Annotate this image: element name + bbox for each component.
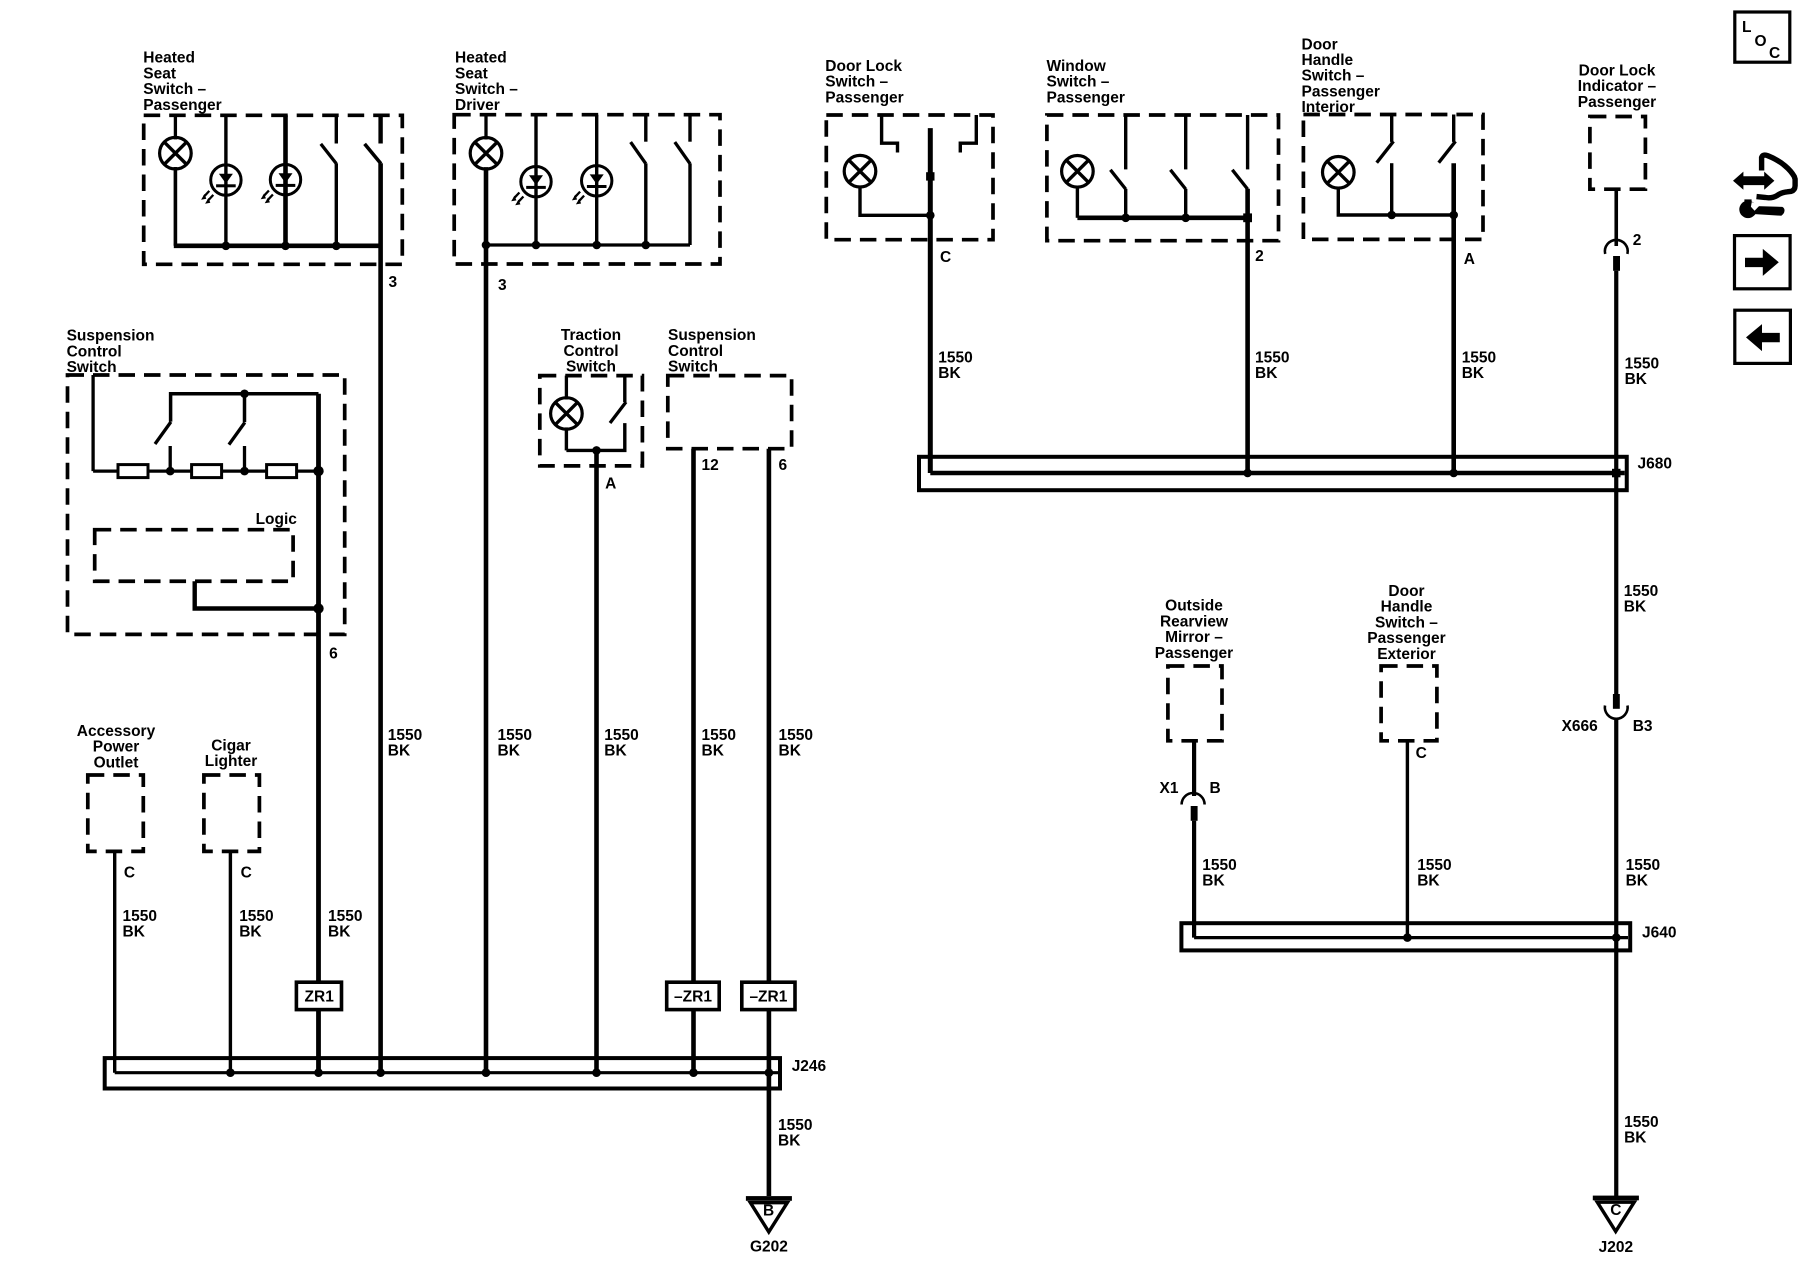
- wire connector down to J640: [1192, 821, 1196, 938]
- door handle switch S2 top contact: [1452, 115, 1455, 142]
- wire LED2 branch: [595, 115, 598, 245]
- switch S4 top contact: [688, 115, 691, 142]
- switch SA blade: [155, 422, 171, 444]
- connector terminal 2 arc: [1605, 240, 1628, 254]
- junction dots on J640: [1403, 933, 1412, 942]
- wire lamp feed: [174, 115, 177, 139]
- cigar lighter box: [204, 775, 260, 851]
- traction switch top contact: [623, 376, 626, 402]
- switch SB blade: [229, 423, 245, 445]
- junction dot on top rail: [240, 389, 249, 398]
- svg-text:B: B: [763, 1203, 774, 1220]
- svg-text:1550BK: 1550BK: [1417, 857, 1451, 890]
- suspension control switch 2 box: [668, 376, 792, 449]
- svg-text:X666: X666: [1562, 718, 1599, 735]
- switch S2 blade: [365, 144, 381, 164]
- wire internal common: [486, 243, 690, 246]
- vehicle navigation icon outline: [1757, 155, 1796, 198]
- svg-text:1550BK: 1550BK: [778, 1117, 812, 1150]
- resistor R1: [118, 465, 148, 478]
- traction switch blade: [610, 402, 626, 423]
- wire resistor rail: [93, 469, 318, 472]
- junction dot: [592, 446, 601, 455]
- svg-text:B3: B3: [1633, 718, 1653, 735]
- svg-text:6: 6: [779, 457, 788, 474]
- wire J640 to J202 ground: [1614, 938, 1618, 1196]
- svg-text:B: B: [1210, 780, 1221, 797]
- svg-text:2: 2: [1255, 248, 1264, 265]
- svg-text:AccessoryPowerOutlet: AccessoryPowerOutlet: [77, 723, 156, 771]
- legend arrow right box: [1735, 236, 1791, 289]
- wire down to J640: [1614, 719, 1618, 938]
- svg-text:–ZR1: –ZR1: [749, 988, 787, 1005]
- svg-text:C: C: [124, 865, 135, 882]
- svg-text:SuspensionControlSwitch: SuspensionControlSwitch: [67, 328, 155, 376]
- svg-text:Logic: Logic: [256, 511, 298, 528]
- svg-text:OutsideRearviewMirror –Passeng: OutsideRearviewMirror –Passenger: [1155, 598, 1233, 662]
- LOC legend box: [1735, 12, 1790, 62]
- window switch S3 blade: [1232, 170, 1247, 189]
- bus J680 internal rail (bold): [930, 471, 1624, 475]
- wire pin 6 output down through J246 to G202 (bold): [767, 449, 772, 1196]
- LED D4: [572, 166, 612, 205]
- switch S3 blade: [631, 142, 646, 164]
- svg-text:3: 3: [498, 277, 507, 294]
- window switch S3 top contact: [1246, 115, 1249, 169]
- wire left leg from box top: [91, 375, 94, 471]
- door lock indicator box: [1590, 117, 1646, 190]
- svg-text:DoorHandleSwitch –PassengerExt: DoorHandleSwitch –PassengerExterior: [1367, 583, 1445, 663]
- svg-text:G202: G202: [750, 1238, 788, 1255]
- wire lamp to common: [565, 427, 568, 450]
- svg-text:A: A: [605, 475, 616, 492]
- bus J246 internal rail: [115, 1071, 778, 1074]
- svg-text:DoorHandleSwitch –PassengerInt: DoorHandleSwitch –PassengerInterior: [1302, 36, 1380, 116]
- svg-text:CigarLighter: CigarLighter: [205, 738, 258, 771]
- door lock switch center pole / wire C output to J680 (bold): [928, 128, 933, 473]
- window switch passenger box: [1047, 115, 1279, 241]
- LED D1: [201, 165, 241, 204]
- traction control switch box: [540, 376, 643, 466]
- window switch S2 top contact: [1184, 115, 1187, 169]
- svg-text:SuspensionControlSwitch: SuspensionControlSwitch: [668, 327, 756, 375]
- wire LED2 branch (bold): [283, 115, 288, 246]
- switch SA lower contact: [169, 446, 172, 471]
- svg-text:12: 12: [702, 457, 719, 474]
- switch S1 lower contact: [335, 163, 338, 246]
- svg-text:C: C: [1610, 1202, 1621, 1219]
- svg-text:WindowSwitch –Passenger: WindowSwitch –Passenger: [1047, 58, 1125, 106]
- svg-text:1550BK: 1550BK: [1626, 857, 1660, 890]
- outside rearview mirror box: [1168, 666, 1222, 741]
- wire lamp to common: [1076, 186, 1079, 218]
- junction dots on J680: [1243, 469, 1252, 478]
- lamp door handle switch: [1323, 157, 1355, 189]
- door handle switch interior box: [1303, 115, 1483, 240]
- wire door handle exterior pin C down to J640: [1406, 741, 1409, 938]
- svg-text:HeatedSeatSwitch –Driver: HeatedSeatSwitch –Driver: [455, 50, 518, 114]
- svg-text:J640: J640: [1642, 925, 1676, 942]
- window switch S1 blade: [1110, 170, 1125, 189]
- svg-text:1550BK: 1550BK: [123, 908, 157, 941]
- door handle switch exterior box: [1381, 666, 1437, 741]
- svg-text:C: C: [241, 865, 252, 882]
- wire lamp to pole: [860, 186, 930, 216]
- wire right rail output down to J246 (bold): [316, 394, 321, 1073]
- wire indicator to connector: [1614, 189, 1618, 246]
- accessory power outlet box: [88, 775, 144, 851]
- lamp window switch: [1062, 156, 1094, 188]
- svg-text:1550BK: 1550BK: [498, 727, 532, 760]
- ground J202 bar: [1593, 1196, 1639, 1201]
- switch S4 blade: [675, 142, 690, 164]
- junction dots on J246: [226, 1068, 235, 1077]
- ground G202 triangle: [750, 1203, 787, 1232]
- wire lamp feed: [565, 376, 568, 400]
- connector X666 stub: [1613, 694, 1620, 709]
- door lock switch passenger box: [826, 115, 993, 240]
- suspension control switch box: [68, 375, 345, 634]
- svg-text:Door LockIndicator –Passenger: Door LockIndicator –Passenger: [1578, 63, 1657, 111]
- junction dot: [926, 211, 935, 220]
- svg-text:–ZR1: –ZR1: [674, 988, 712, 1005]
- svg-text:C: C: [1416, 745, 1427, 762]
- splice bus J680: [919, 457, 1627, 490]
- svg-text:J246: J246: [792, 1058, 827, 1075]
- traction switch lower contact: [566, 423, 624, 450]
- door handle switch S1 top contact: [1390, 115, 1393, 142]
- junction dots: [1121, 214, 1130, 223]
- connector X1 stub: [1191, 806, 1198, 821]
- svg-text:1550BK: 1550BK: [388, 727, 422, 760]
- svg-text:1550BK: 1550BK: [1462, 350, 1496, 383]
- switch SB lower contact: [243, 446, 246, 471]
- lamp traction control switch: [551, 398, 583, 430]
- door lock switch right contact: [960, 115, 976, 153]
- vehicle navigation icon double arrow: [1733, 172, 1774, 190]
- junction dots on resistor rail: [166, 467, 175, 476]
- wire pin 12 output down to J246 (bold): [691, 449, 696, 1073]
- door handle switch S1 lower contact: [1390, 163, 1393, 215]
- lamp heated seat driver indicator: [470, 138, 502, 170]
- wire switch S2 output down to J680 (bold): [1451, 163, 1456, 473]
- wire cigar lighter pin C down to J246: [229, 851, 232, 1072]
- wire internal common (bold): [1077, 216, 1247, 221]
- pole contact dot: [926, 172, 934, 180]
- svg-text:1550BK: 1550BK: [604, 727, 638, 760]
- svg-text:ZR1: ZR1: [305, 988, 335, 1005]
- wire indicator down through J680: [1614, 271, 1618, 695]
- splice box -ZR1 second: [742, 982, 795, 1009]
- svg-text:1550BK: 1550BK: [1624, 583, 1658, 616]
- svg-text:1550BK: 1550BK: [1624, 1114, 1658, 1147]
- svg-text:2: 2: [1633, 232, 1642, 249]
- svg-text:J202: J202: [1599, 1239, 1633, 1256]
- wire internal common (bold): [174, 244, 381, 249]
- splice box ZR1: [296, 982, 341, 1009]
- svg-text:1550BK: 1550BK: [1255, 350, 1289, 383]
- svg-text:1550BK: 1550BK: [1202, 857, 1236, 890]
- svg-text:J680: J680: [1638, 456, 1672, 473]
- switch S1 blade: [321, 144, 337, 164]
- splice bus J640: [1181, 923, 1630, 950]
- wire output down to J246 (bold): [594, 450, 599, 1072]
- LED D2: [261, 165, 301, 204]
- svg-text:1550BK: 1550BK: [779, 727, 813, 760]
- resistor R3: [267, 465, 297, 478]
- svg-text:C: C: [1769, 45, 1780, 62]
- wire top rail: [171, 394, 319, 422]
- wire APO pin C down to J246: [113, 851, 116, 1072]
- svg-text:6: 6: [329, 646, 338, 663]
- wire switch S3 output down to J680 (bold): [1245, 189, 1250, 473]
- junction dots: [1387, 211, 1396, 220]
- wire lamp output down to J246 (bold): [484, 167, 489, 1073]
- wire lamp feed: [484, 115, 487, 140]
- wire lamp to common: [1338, 187, 1453, 215]
- junction dots: [222, 242, 231, 251]
- wire LED1 branch: [224, 115, 227, 246]
- legend arrow left box: [1735, 310, 1791, 363]
- switch S1 top contact: [335, 115, 338, 143]
- svg-text:C: C: [940, 249, 951, 266]
- splice box -ZR1 first: [667, 982, 720, 1009]
- switch S2 top contact: [378, 115, 382, 143]
- svg-text:1550BK: 1550BK: [328, 908, 362, 941]
- wire mirror pin B to connector: [1192, 741, 1196, 796]
- connector terminal 2 stub: [1613, 256, 1620, 271]
- door handle switch S2 blade: [1439, 141, 1456, 162]
- connector X1 arc: [1182, 793, 1205, 804]
- svg-text:1550BK: 1550BK: [702, 727, 736, 760]
- svg-text:3: 3: [389, 274, 398, 291]
- svg-text:X1: X1: [1160, 780, 1179, 797]
- svg-text:1550BK: 1550BK: [239, 908, 273, 941]
- wrench icon: [1739, 201, 1756, 218]
- window switch S2 blade: [1170, 170, 1185, 189]
- svg-text:TractionControlSwitch: TractionControlSwitch: [561, 327, 621, 375]
- lamp heated seat passenger indicator: [160, 137, 192, 169]
- switch SB top contact: [243, 394, 247, 422]
- svg-text:1550BK: 1550BK: [938, 350, 972, 383]
- bus J640 internal rail: [1194, 936, 1628, 939]
- heated seat switch driver box: [454, 115, 720, 264]
- svg-text:Door LockSwitch –Passenger: Door LockSwitch –Passenger: [825, 58, 903, 106]
- ground J202 triangle: [1597, 1202, 1634, 1231]
- svg-text:HeatedSeatSwitch –Passenger: HeatedSeatSwitch –Passenger: [143, 50, 221, 114]
- LED D3: [511, 167, 551, 206]
- junction dots: [482, 241, 491, 250]
- junction dot: [313, 603, 323, 613]
- svg-text:A: A: [1464, 251, 1475, 268]
- door handle switch S1 blade: [1377, 141, 1394, 162]
- heated seat switch passenger box: [144, 115, 403, 264]
- switch S4 lower contact: [688, 163, 691, 245]
- switch S3 top contact: [644, 115, 647, 142]
- window switch S1 lower contact: [1124, 189, 1127, 218]
- connector X666 arc: [1605, 706, 1628, 719]
- door lock switch left contact: [882, 115, 898, 153]
- svg-text:1550BK: 1550BK: [1625, 356, 1659, 389]
- switch S3 lower contact: [644, 163, 647, 245]
- svg-text:O: O: [1755, 33, 1767, 50]
- wire LED1 branch: [534, 115, 537, 245]
- splice bus J246: [105, 1058, 780, 1088]
- window switch S1 top contact: [1124, 115, 1127, 169]
- ground G202 bar: [746, 1196, 792, 1201]
- svg-text:L: L: [1742, 19, 1751, 36]
- wire lamp to bus: [174, 167, 178, 246]
- window switch S2 lower contact: [1184, 189, 1187, 218]
- resistor R2: [192, 465, 222, 478]
- wire logic output: [195, 581, 319, 608]
- lamp door lock switch: [844, 155, 876, 187]
- wire switch S2 output down to J246: [378, 163, 383, 1072]
- logic box: [95, 530, 293, 582]
